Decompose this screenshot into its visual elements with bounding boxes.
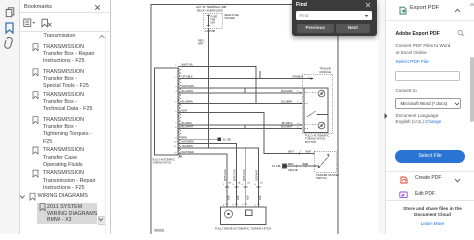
svg-text:2B: 2B bbox=[238, 183, 241, 185]
svg-text:1: 1 bbox=[300, 151, 302, 153]
svg-text:WHT/RED: WHT/RED bbox=[182, 150, 194, 154]
svg-text:WHT/GRN: WHT/GRN bbox=[233, 169, 236, 181]
svg-text:A8: A8 bbox=[179, 156, 183, 159]
svg-text:1: 1 bbox=[255, 205, 257, 207]
svg-text:7: 7 bbox=[175, 123, 177, 125]
svg-text:TRAILER: TRAILER bbox=[320, 67, 331, 71]
svg-text:SWITCH: SWITCH bbox=[316, 176, 327, 180]
svg-text:2: 2 bbox=[306, 163, 308, 165]
svg-text:12: 12 bbox=[174, 152, 177, 154]
svg-text:BLU/WHT: BLU/WHT bbox=[182, 125, 194, 129]
svg-text:2: 2 bbox=[175, 77, 177, 79]
svg-text:4: 4 bbox=[232, 184, 234, 186]
svg-text:2: 2 bbox=[223, 184, 225, 186]
svg-text:4: 4 bbox=[223, 205, 225, 207]
svg-text:BUTTON: BUTTON bbox=[305, 140, 316, 144]
svg-text:BLU/BLK: BLU/BLK bbox=[282, 121, 293, 125]
svg-text:BLU/BRN: BLU/BRN bbox=[182, 99, 193, 103]
svg-text:BLU/BRN: BLU/BRN bbox=[281, 99, 292, 103]
svg-text:YEL/BRN: YEL/BRN bbox=[182, 144, 193, 148]
svg-text:BLU/GRN: BLU/GRN bbox=[182, 89, 194, 93]
svg-text:2B: 2B bbox=[228, 183, 231, 185]
svg-text:2: 2 bbox=[205, 30, 207, 33]
svg-text:9: 9 bbox=[175, 138, 177, 140]
svg-text:MODULE: MODULE bbox=[320, 70, 332, 74]
svg-text:1: 1 bbox=[175, 65, 177, 67]
svg-text:WHT/BRN: WHT/BRN bbox=[182, 139, 194, 143]
svg-text:WHT: WHT bbox=[198, 43, 204, 46]
svg-text:WHT: WHT bbox=[288, 150, 294, 154]
svg-text:Z1 13B: Z1 13B bbox=[272, 164, 281, 168]
svg-text:6: 6 bbox=[175, 111, 177, 113]
svg-text:3: 3 bbox=[232, 205, 234, 207]
svg-text:BLU/BLK: BLU/BLK bbox=[182, 121, 193, 125]
svg-text:T3B: T3B bbox=[211, 30, 216, 33]
svg-text:3: 3 bbox=[175, 86, 177, 88]
svg-text:BRN: BRN bbox=[182, 135, 188, 139]
svg-text:GRN/BLK: GRN/BLK bbox=[292, 75, 304, 79]
svg-text:BLU/WHT: BLU/WHT bbox=[281, 125, 293, 129]
svg-text:WHT/GRN: WHT/GRN bbox=[182, 84, 195, 88]
svg-text:A3B: A3B bbox=[259, 195, 262, 200]
svg-text:4: 4 bbox=[175, 91, 177, 93]
svg-text:BRN: BRN bbox=[288, 162, 294, 166]
svg-text:2: 2 bbox=[242, 205, 244, 207]
svg-text:FULLY DRIVE AUTOMATIC TOWING H: FULLY DRIVE AUTOMATIC TOWING HITCH bbox=[215, 226, 271, 230]
svg-text:2B: 2B bbox=[260, 183, 263, 185]
svg-text:WHT/YEL: WHT/YEL bbox=[182, 63, 194, 67]
svg-text:WHT: WHT bbox=[306, 150, 312, 154]
svg-text:WHT/GRN: WHT/GRN bbox=[243, 169, 246, 181]
svg-text:5: 5 bbox=[175, 102, 177, 104]
svg-text:BLU/GRN: BLU/GRN bbox=[281, 89, 293, 93]
svg-text:BG931: BG931 bbox=[155, 228, 165, 232]
svg-text:TOWING HITCH: TOWING HITCH bbox=[153, 162, 172, 165]
svg-text:Z1 13B: Z1 13B bbox=[223, 137, 232, 141]
svg-text:A3B: A3B bbox=[237, 195, 240, 200]
svg-text:20A: 20A bbox=[211, 22, 216, 25]
svg-text:2B: 2B bbox=[247, 183, 250, 185]
svg-text:11: 11 bbox=[174, 146, 177, 148]
svg-text:WHT: WHT bbox=[182, 109, 188, 113]
svg-text:8: 8 bbox=[175, 127, 177, 129]
svg-text:WHT/GRN: WHT/GRN bbox=[224, 169, 227, 181]
svg-text:10: 10 bbox=[174, 142, 177, 144]
svg-text:A3B: A3B bbox=[228, 195, 231, 200]
svg-text:GRY/BLK: GRY/BLK bbox=[182, 75, 193, 79]
svg-text:HOLDER: HOLDER bbox=[225, 17, 236, 20]
svg-text:6: 6 bbox=[242, 184, 244, 186]
svg-text:RELAY ENERGIZED: RELAY ENERGIZED bbox=[197, 9, 223, 13]
svg-text:A3B: A3B bbox=[246, 195, 249, 200]
svg-text:ARM 2B: ARM 2B bbox=[288, 168, 298, 172]
svg-text:RED/WHT: RED/WHT bbox=[256, 169, 259, 181]
svg-text:8: 8 bbox=[255, 184, 257, 186]
